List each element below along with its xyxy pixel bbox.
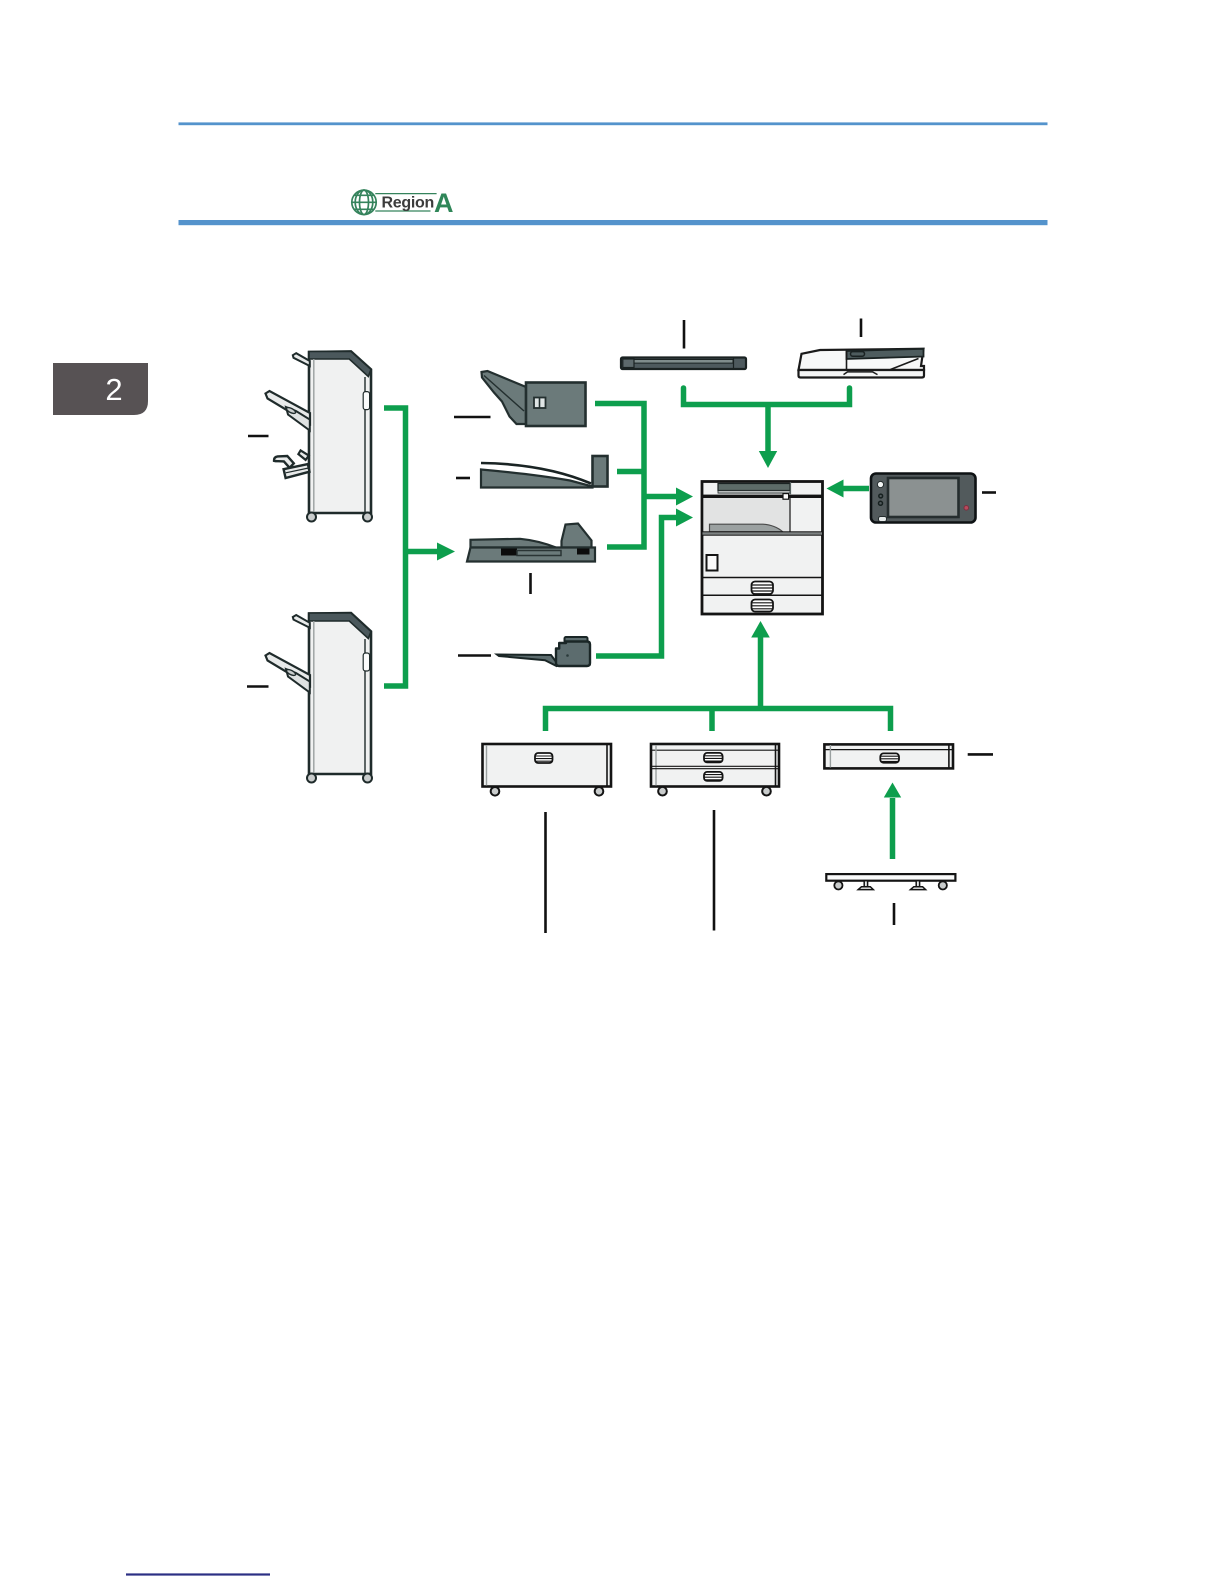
callout tick tray 3: [968, 753, 993, 756]
callout tick one-bin tray: [458, 654, 491, 657]
green connector bridge network: [595, 404, 677, 548]
booklet finisher middle output tray: [266, 391, 311, 431]
booklet finisher SR790 body: [309, 351, 371, 513]
green up arrow into printer bottom: [751, 621, 770, 709]
green arrow control panel to printer: [827, 480, 870, 498]
green arrowhead into printer lower: [676, 509, 693, 527]
green down arrow into printer: [759, 405, 777, 469]
booklet finisher top tray rod: [293, 353, 310, 366]
ADF: [799, 349, 925, 378]
booklet finisher booklet tray: [274, 450, 310, 478]
green arrowhead to internal finisher: [437, 543, 455, 561]
callout tick two-drawer unit: [713, 810, 716, 931]
footer page-reference rule: [126, 1573, 270, 1575]
header thick blue rule: [179, 220, 1048, 225]
finisher SR3120 body: [309, 613, 371, 774]
control panel: [871, 474, 976, 523]
chapter tab 2: [53, 363, 148, 415]
internal finisher: [467, 524, 595, 562]
callout tick platen cover: [683, 320, 686, 349]
green arrowhead into printer upper: [676, 488, 693, 506]
green bracket platen and ADF: [684, 388, 850, 405]
Region A logo rules: [375, 194, 436, 211]
callout tick bridge unit: [454, 416, 491, 419]
two-drawer paper tray unit: [651, 744, 779, 796]
callout tick shift tray: [456, 477, 470, 480]
callout tick ADF: [860, 319, 863, 338]
header thin blue rule: [179, 122, 1048, 125]
callout tick finisher: [247, 685, 269, 688]
svg-text:A: A: [434, 188, 454, 218]
svg-text:Region: Region: [382, 194, 434, 211]
finisher top tray rod: [293, 615, 310, 628]
green bracket paper trays: [546, 709, 891, 732]
green bracket finishers: [384, 408, 438, 686]
internal shift tray: [481, 456, 608, 488]
callout tick caster table: [893, 903, 896, 925]
one-bin tray: [497, 637, 590, 666]
callout tick internal finisher: [529, 573, 532, 594]
caster table: [826, 874, 955, 890]
bridge unit: [482, 371, 586, 426]
svg-text:2: 2: [105, 372, 122, 407]
callout tick booklet finisher: [248, 435, 269, 438]
finisher output tray: [266, 653, 311, 693]
main printer: [702, 482, 823, 615]
green connector one-bin network: [596, 518, 677, 657]
green up arrow caster table to tray 3: [884, 783, 901, 860]
platen cover: [621, 358, 746, 370]
Region A logo globe: [352, 190, 376, 214]
tray 3 unit: [824, 744, 953, 768]
finisher wheels: [307, 774, 372, 783]
callout tick lower paper tray: [544, 812, 547, 933]
lower paper tray cabinet: [483, 744, 612, 796]
booklet finisher wheels: [307, 513, 372, 522]
callout tick control panel: [982, 491, 996, 494]
